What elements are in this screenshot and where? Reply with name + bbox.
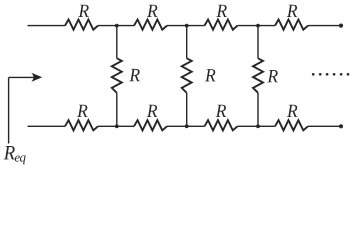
label R bottom 3: [216, 105, 226, 117]
wire Req arrow shaft: [9, 76, 34, 78]
node junction bottom 2: [185, 124, 189, 128]
node junction top 3: [256, 24, 260, 28]
resistor R top 1: [65, 20, 98, 30]
resistor R bottom 2: [134, 120, 167, 130]
label R bottom 4: [287, 105, 297, 117]
label R top 1: [78, 5, 88, 17]
node junction bottom 1: [115, 124, 119, 128]
node terminal top right: [339, 24, 343, 28]
wire top rail segment 3: [167, 25, 205, 27]
node junction bottom 3: [256, 124, 260, 128]
wire bottom rail segment 4: [238, 125, 276, 127]
wire vertical lead 1 top: [116, 26, 118, 59]
label R top 2: [147, 5, 157, 17]
wire Req bracket vertical: [8, 77, 10, 143]
node junction top 1: [115, 24, 119, 28]
label R bottom 2: [147, 105, 157, 117]
label Req: [4, 146, 26, 164]
wire bottom rail segment 3: [167, 125, 205, 127]
resistor R bottom 3: [205, 120, 238, 130]
wire vertical lead 2 top: [186, 26, 188, 59]
ellipsis continuation dots: [312, 73, 315, 76]
wire vertical lead 1 bottom: [116, 93, 118, 127]
resistor R bottom 1: [65, 120, 98, 130]
resistor R top 2: [134, 20, 167, 30]
wire bottom rail segment 2: [98, 125, 134, 127]
resistor R shunt 2: [182, 58, 192, 93]
wire top rail segment 1: [28, 25, 66, 27]
wire vertical lead 2 bottom: [186, 93, 188, 127]
wire top rail segment 4: [238, 25, 276, 27]
resistor R shunt 3: [253, 58, 263, 93]
resistor R top 4: [275, 20, 308, 30]
wire top rail segment 5: [308, 25, 341, 27]
node junction top 2: [185, 24, 189, 28]
wire bottom rail segment 1: [28, 125, 66, 127]
resistor R top 3: [205, 20, 238, 30]
label R shunt 3: [267, 70, 277, 82]
wire vertical lead 3 top: [257, 26, 259, 59]
resistor R bottom 4: [275, 120, 308, 130]
wire vertical lead 3 bottom: [257, 93, 259, 127]
label R top 4: [287, 5, 297, 17]
label R bottom 1: [77, 105, 87, 117]
wire bottom rail segment 5: [308, 125, 341, 127]
label R shunt 2: [205, 69, 215, 81]
label R shunt 1: [129, 69, 139, 81]
resistor R shunt 1: [112, 58, 122, 93]
wire top rail segment 2: [98, 25, 134, 27]
node terminal bottom right: [339, 124, 343, 128]
label R top 3: [216, 5, 226, 17]
arrowhead Req: [31, 73, 42, 82]
